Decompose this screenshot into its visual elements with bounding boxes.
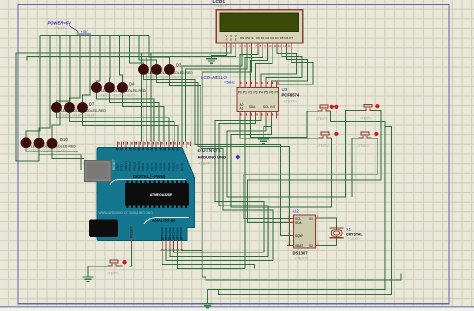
wire LED D6 cathode to arduino pin [123,93,165,142]
wire bus to LED D12 anode [52,36,60,139]
svg-text:<TEXT>: <TEXT> [214,4,227,8]
wire arduino A5 to bottom ground [181,247,202,251]
wire button B4 left drop [352,138,359,197]
svg-text:PC5/A5: PC5/A5 [179,227,183,238]
arduino top pin names [115,161,184,171]
svg-text:P5: P5 [264,91,268,95]
wire LCD D5 to U3 P5 [266,49,302,82]
wire bus to LED D11 anode [39,36,50,138]
button B3 [317,132,338,148]
svg-text:D7: D7 [289,36,293,40]
wire U3 pin staircase b [219,119,268,257]
wire power label tap [77,32,79,36]
wire LED D11 cathode [39,149,81,171]
svg-text:P7: P7 [275,91,279,95]
wire LCD D4 to U3 P4 [261,49,297,82]
wire bus to LED D2 anode [139,36,157,65]
LEDs group 1 (D1 D2 D3) [139,63,194,80]
svg-text:D4: D4 [129,82,135,87]
svg-text:DIGITAL (~PWM): DIGITAL (~PWM) [133,174,166,179]
svg-text:D1: D1 [261,36,265,40]
wire button B4 right to U2 X1 [244,138,378,218]
svg-text:D0: D0 [256,36,260,40]
wire U3 pin to ground [264,119,272,140]
wire U3 pin staircase a [215,119,264,253]
wire LCD VEE rail [27,49,236,61]
wire bus to LED D8 anode [70,36,81,103]
svg-text:P4: P4 [259,91,263,95]
wire bus to LED D9 anode [83,36,91,103]
wire rail drop to arduino pin b [145,57,147,142]
wire LCD D6 to U3 P6 [271,49,307,82]
arduino MCU chip [125,181,189,208]
wire LED D3 cathode to button B4 left [170,75,274,261]
svg-text:D5: D5 [280,36,284,40]
LEDs group 4 (D10 D11 D12) [21,137,76,153]
svg-text:INT: INT [270,105,275,109]
svg-text:<TEXT>: <TEXT> [316,117,328,121]
svg-text:D2: D2 [265,36,269,40]
wire LCD VDD rail [16,49,231,161]
bottom window edge line [0,306,474,307]
node label LCD=HELLO [201,75,235,85]
wire U3 pin to button B3 right [231,119,332,207]
arduino DUINO1 label [198,148,241,166]
svg-text:<TEXT> <TEXT> <TEXT>: <TEXT> <TEXT> <TEXT> [99,94,137,98]
arduino board body [97,148,195,241]
svg-text:SCL: SCL [263,105,269,109]
LCD pins [227,43,292,49]
LCD LM016L label [213,0,227,8]
wire bus to LED D10 anode a [26,36,40,138]
wire reset pin to button [130,247,132,267]
wire bus to LED D3 anode [149,36,170,65]
svg-text:S: S [225,38,227,42]
svg-text:<TEXT> <TEXT> <TEXT>: <TEXT> <TEXT> <TEXT> [59,114,97,118]
svg-text:A1: A1 [240,107,244,111]
wire arduino A0 [162,247,254,269]
svg-text:+5V: +5V [81,30,88,34]
svg-text:SDA: SDA [295,221,302,225]
arduino power jack [89,220,118,238]
svg-text:PB0/8: PB0/8 [145,162,149,171]
LEDs group 3 (D7 D8 D9) [52,102,107,118]
U3 pin labels [238,91,279,111]
wire arduino A1 [166,247,273,261]
svg-text:<TEXT>: <TEXT> [357,144,369,148]
wire rail drop to arduino pin c [150,53,152,142]
svg-text:<TEXT>: <TEXT> [107,272,119,276]
svg-text:U3: U3 [282,87,288,92]
svg-text:ARDUINO UNO: ARDUINO UNO [198,155,227,160]
svg-text:X1: X1 [346,227,352,232]
IC U2 DS1307 [287,209,321,261]
ground below reset button [83,277,94,281]
svg-text:<TEXT>: <TEXT> [199,162,212,166]
wire LED D2 cathode to U2 SDA [157,75,294,246]
svg-text:LCD=HELLO: LCD=HELLO [201,75,227,80]
wire LED D8 cathode to arduino pin [70,113,175,142]
button reset [107,260,127,276]
wire LCD E to arduino [202,49,401,280]
svg-text:X1: X1 [309,217,313,221]
svg-text:SDA: SDA [249,105,256,109]
U3 bottom pins [240,112,277,119]
svg-text:PCF8574: PCF8574 [282,93,300,98]
ground below U3 [258,139,269,143]
svg-text:DS1307: DS1307 [293,251,309,256]
svg-text:ATMEGA328P: ATMEGA328P [150,193,173,197]
svg-text:SQW: SQW [295,234,303,238]
svg-text:<TEXT>: <TEXT> [317,144,329,148]
svg-text:LED-REDLED-REDLED-RED: LED-REDLED-REDLED-RED [148,71,193,75]
wire LED D12 cathode [52,149,84,159]
wire U3 pin to button B1 left [250,111,317,137]
svg-text:DUINO1: DUINO1 [198,148,222,154]
wire bus to LED D1 anode [130,36,144,65]
wire LCD D3 to U3 P3 [256,49,273,82]
svg-text:D3: D3 [270,36,274,40]
button B1 [316,105,338,121]
U3 labels [282,87,300,104]
arduino silkscreen analog banner [144,218,189,225]
wire LCD VSS to ground [212,49,227,59]
svg-text:=5kHz: =5kHz [224,81,235,85]
U3 pin numbers [241,82,279,115]
ground below LCD VSS [206,59,217,63]
wire LED D10 cathode [26,148,78,151]
svg-text:CRYSTAL: CRYSTAL [346,232,363,236]
arduino analog pin numbers [160,248,183,252]
wire bus to LED D4 anode [97,36,101,83]
button B2 [360,104,379,120]
svg-text:<TEXT> <TEXT> <TEXT>: <TEXT> <TEXT> <TEXT> [29,149,67,153]
svg-text:<TEXT>: <TEXT> [360,117,372,121]
svg-text:<TEXT>: <TEXT> [54,27,67,31]
svg-text:E: E [252,36,254,40]
wire arduino A4 [177,247,245,269]
LCD pin numbers [223,44,291,48]
svg-text:P1: P1 [243,91,247,95]
button B4 [357,132,378,148]
wire bus to LED D6 anode [120,36,123,83]
wire LED D7 cathode to arduino pin [57,113,170,142]
svg-text:D7: D7 [89,102,95,107]
LCD LM016L body [216,10,302,43]
svg-text:<TEXT>: <TEXT> [348,237,361,241]
LCD pin labels [225,34,293,42]
svg-text:ANALOG IN: ANALOG IN [152,218,175,223]
svg-text:U2: U2 [293,209,299,214]
svg-text:D3: D3 [176,63,182,68]
wire LCD D0 to U3 P0 [240,49,258,82]
power label POWER +5V [48,21,92,35]
wire right second drop to bottom rail [219,127,392,295]
wire U3 pin to button B2 left [227,111,362,197]
wire LCD D2 to U3 P2 [250,49,267,82]
svg-text:RESET: RESET [129,226,133,238]
wire LCD RW to arduino [186,49,247,142]
arduino silkscreen digital banner [110,174,186,185]
arduino analog pin stubs [131,241,181,248]
svg-text:P0: P0 [238,91,242,95]
svg-text:P6: P6 [269,91,273,95]
arduino analog pin names [160,227,183,238]
wire LED D9 cathode to arduino pin [83,113,179,142]
wire rail drop to arduino pin a [140,53,142,142]
svg-text:A5: A5 [179,248,183,252]
wire LCD D7 to U3 P7 [277,49,314,88]
wire LCD D1 to U3 P1 [245,49,263,82]
svg-text:<TEXT> <TEXT> <TEXT>: <TEXT> <TEXT> <TEXT> [146,76,184,80]
arduino DUINO1 top pin stubs [117,142,190,149]
svg-text:<TEXT>: <TEXT> [295,256,308,260]
svg-text:X2: X2 [309,244,313,248]
svg-text:RESET: RESET [112,159,116,170]
svg-text:LED-REDLED-REDLED-RED: LED-REDLED-REDLED-RED [101,89,146,93]
ground bottom center [202,290,213,308]
svg-text:E: E [235,38,237,42]
svg-text:WWW.ARDUINO.CC SIMULINO UNO: WWW.ARDUINO.CC SIMULINO UNO [99,211,154,215]
svg-text:LED-REDLED-REDLED-RED: LED-REDLED-REDLED-RED [61,109,106,113]
wire U3 pin to button B3 left [240,119,319,139]
wire reset button to ground [88,266,108,276]
crystal X1 [330,227,364,242]
svg-text:RS: RS [240,36,244,40]
svg-text:D4: D4 [275,36,279,40]
svg-text:RX<0: RX<0 [180,163,184,171]
wire button B1 right to bottom rail and ground [208,111,385,289]
svg-text:POWER=5V: POWER=5V [48,21,73,26]
wire arduino A3 [174,247,264,252]
wire bus to LED D5 anode [109,36,112,83]
U3 top pins [240,81,277,88]
bottom window band [0,307,474,311]
wire arduino A2 [170,247,268,257]
svg-text:D10: D10 [60,137,68,142]
wire LCD RS to arduino [182,49,242,142]
svg-text:LED-REDLED-REDLED-RED: LED-REDLED-REDLED-RED [31,144,76,148]
wire LED D1 cathode to U2 SCL [144,75,294,236]
wire bus to LED D7 anode [57,36,71,103]
IC U3 PCF8574 body [237,88,279,112]
wire LED D5 cathode to arduino pin [110,93,160,142]
svg-text:D6: D6 [284,36,288,40]
arduino pin header sockets and numbers [116,142,188,240]
wire button B2 right to U2 X2 [247,111,381,223]
node +5V power rail bus [40,35,149,37]
svg-text:VBAT: VBAT [295,244,303,248]
LEDs group 2 (D4 D5 D6) [92,82,147,98]
arduino USB connector [85,161,112,182]
svg-text:RW: RW [245,36,250,40]
svg-text:P3: P3 [254,91,258,95]
wire LED D4 cathode to arduino pin [97,93,154,142]
wire U3 pin down [244,119,246,269]
svg-text:P2: P2 [248,91,252,95]
wire U2 X1 to crystal [321,218,337,246]
svg-text:<TEXT>: <TEXT> [284,100,297,104]
